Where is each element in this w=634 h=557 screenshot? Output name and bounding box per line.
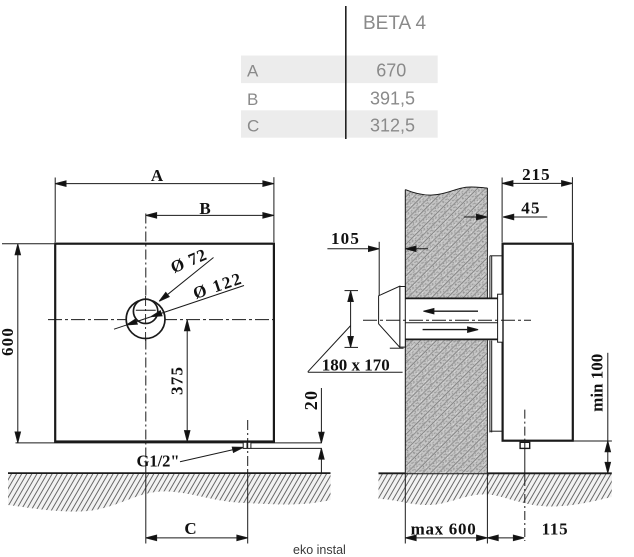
svg-text:45: 45 xyxy=(521,199,541,218)
svg-text:B: B xyxy=(199,199,210,218)
svg-text:215: 215 xyxy=(522,165,551,184)
svg-text:391,5: 391,5 xyxy=(370,89,415,109)
svg-text:eko instal: eko instal xyxy=(293,543,346,557)
svg-text:A: A xyxy=(247,62,259,81)
svg-text:G1/2": G1/2" xyxy=(137,451,180,470)
svg-text:A: A xyxy=(151,166,164,185)
svg-text:C: C xyxy=(247,117,259,136)
svg-text:312,5: 312,5 xyxy=(370,116,415,136)
svg-text:105: 105 xyxy=(331,229,360,248)
svg-text:min 100: min 100 xyxy=(588,354,607,412)
svg-text:670: 670 xyxy=(376,61,406,81)
svg-text:375: 375 xyxy=(167,366,186,395)
svg-text:C: C xyxy=(184,519,196,538)
svg-text:B: B xyxy=(247,90,258,109)
svg-text:600: 600 xyxy=(0,327,17,356)
svg-text:20: 20 xyxy=(301,389,321,410)
svg-text:115: 115 xyxy=(542,520,569,539)
svg-text:max 600: max 600 xyxy=(411,520,477,539)
svg-text:180 x 170: 180 x 170 xyxy=(322,355,390,374)
svg-text:BETA 4: BETA 4 xyxy=(363,13,426,34)
